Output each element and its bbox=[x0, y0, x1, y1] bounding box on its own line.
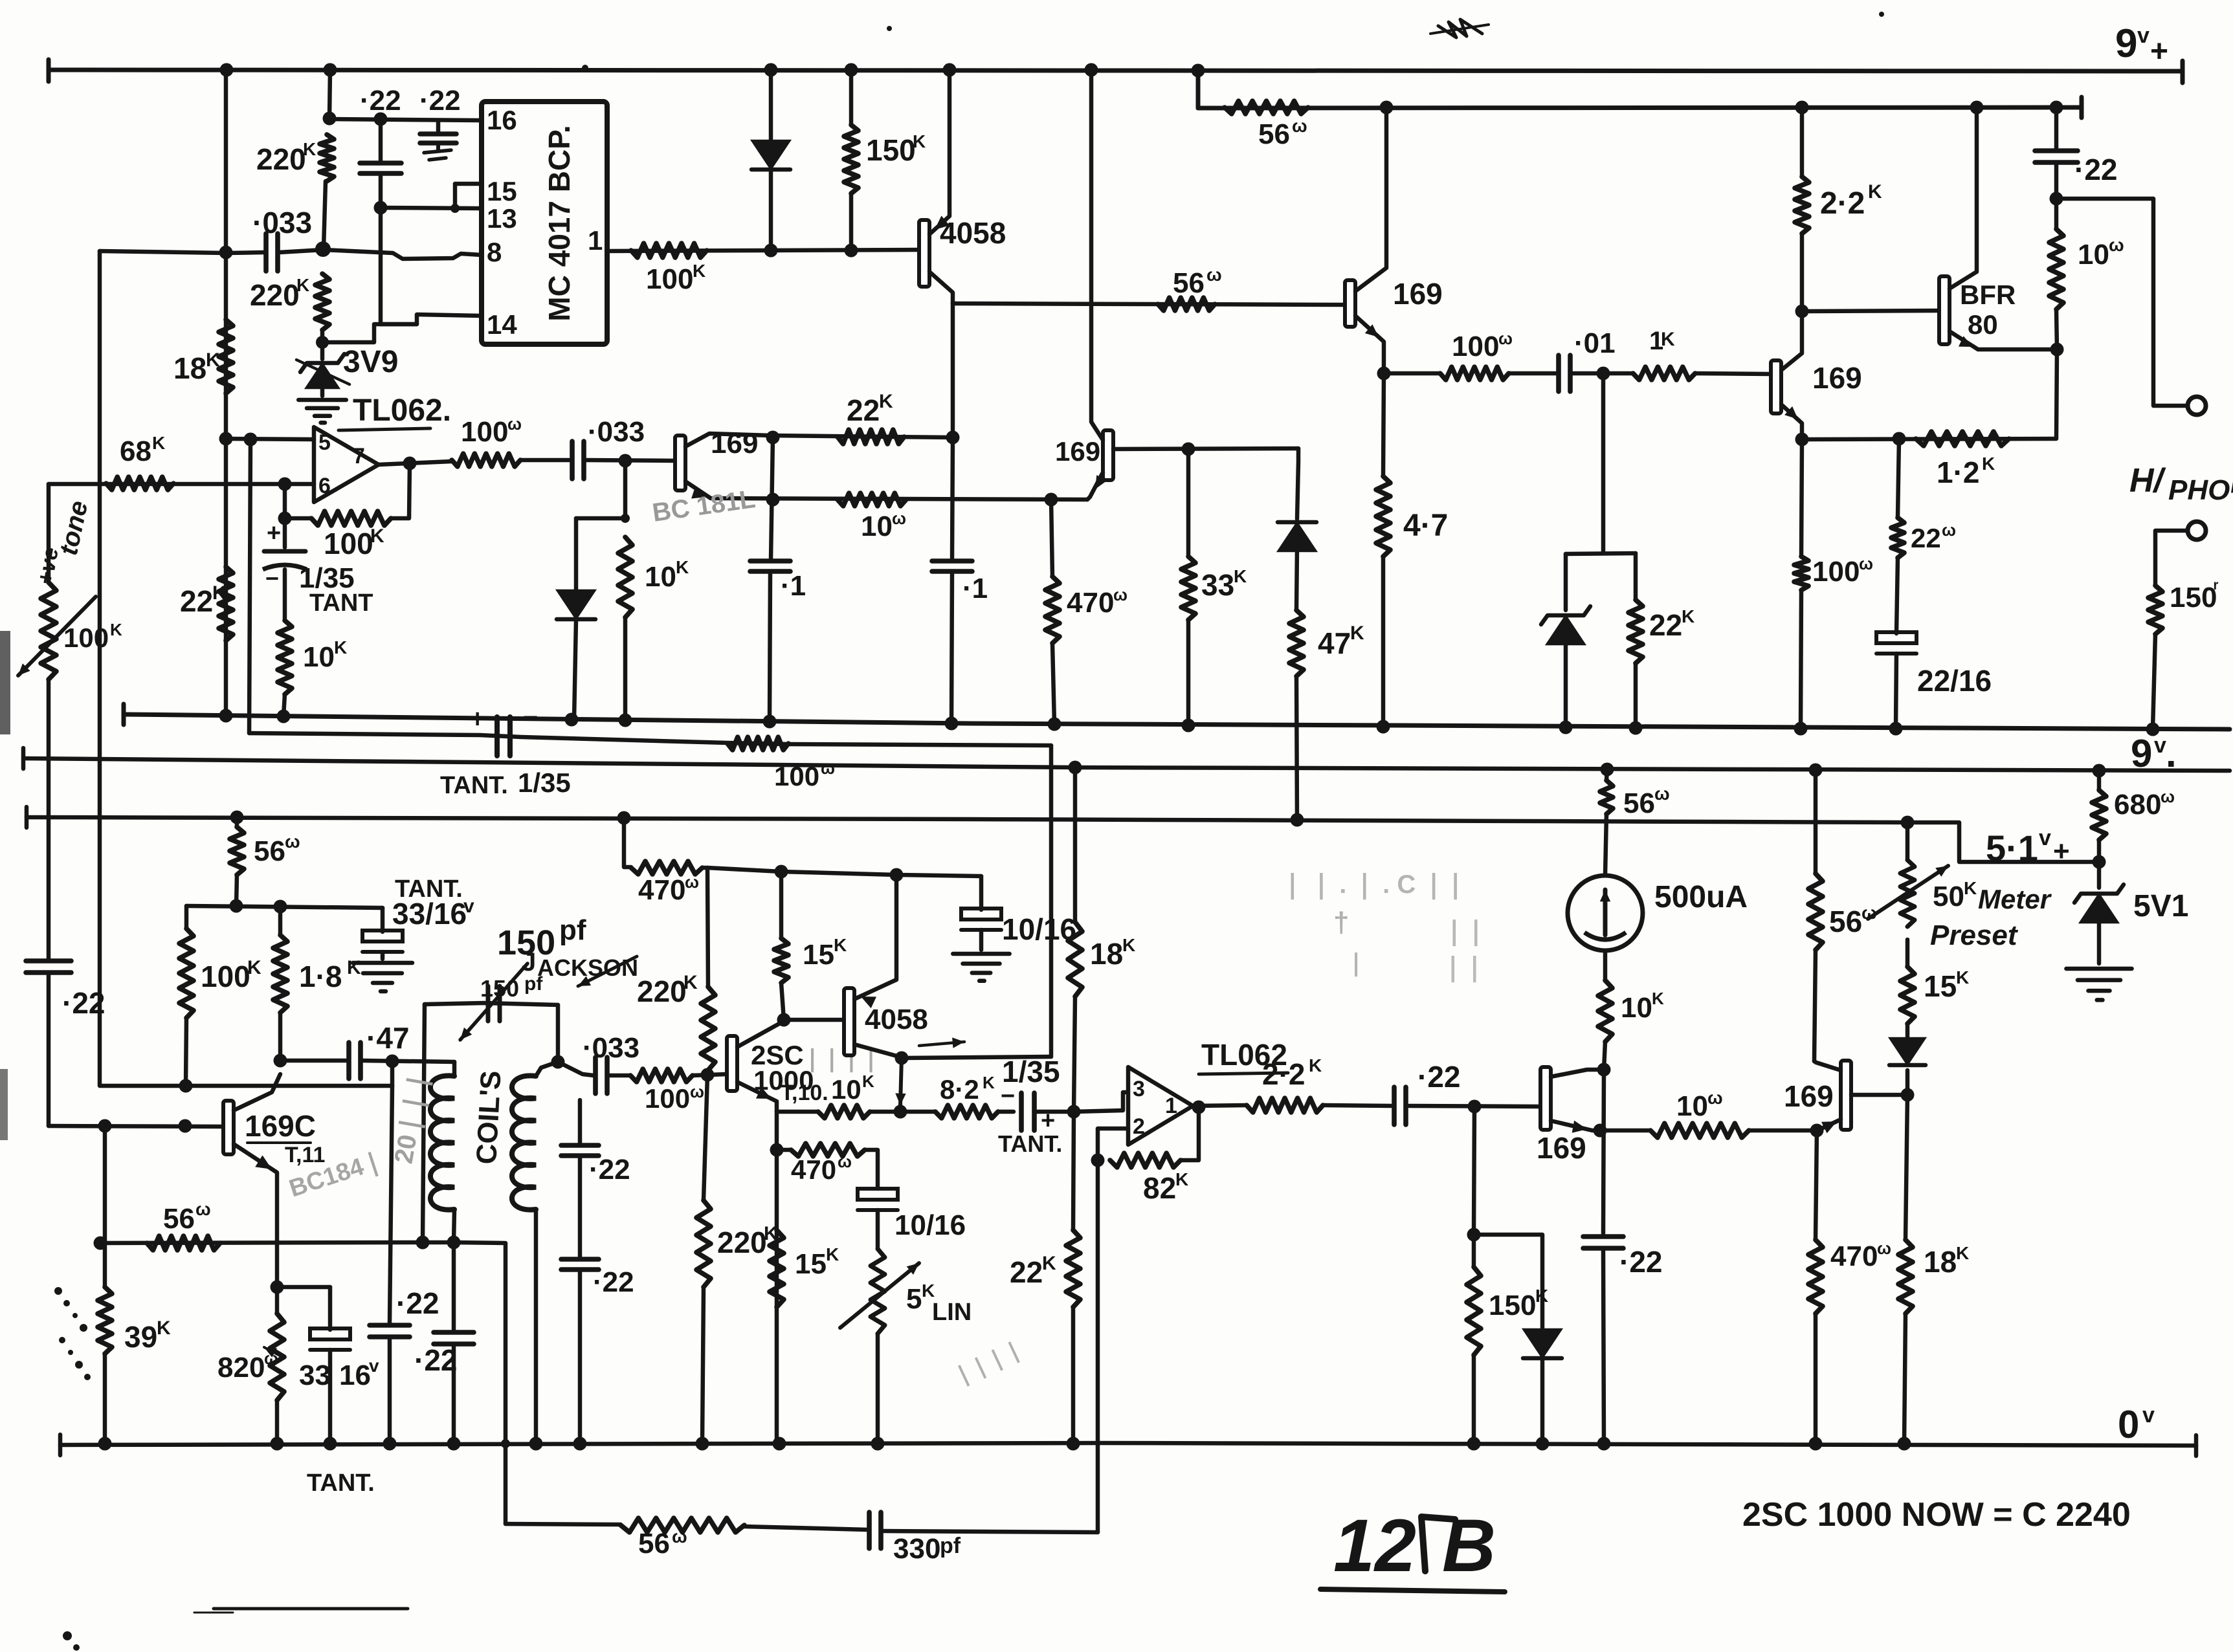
label TL062 b bbox=[1199, 1038, 1288, 1074]
junction on L1 rail bbox=[219, 709, 233, 723]
wire Q9 vert bbox=[1603, 1070, 1604, 1233]
svg-text:v: v bbox=[463, 896, 474, 917]
label 169 Q5 bbox=[1055, 436, 1100, 467]
junction on 0V rail bbox=[773, 1437, 786, 1451]
svg-text:v: v bbox=[2154, 733, 2166, 758]
wire collector to 4058b bbox=[784, 1018, 844, 1022]
resistor R-220Kb bbox=[696, 1075, 711, 1444]
pin 16 bbox=[487, 105, 517, 135]
wire .01 to 1K bbox=[1572, 371, 1633, 376]
junction on 0V rail bbox=[573, 1437, 587, 1451]
label 100c bbox=[1812, 554, 1873, 588]
wire .033 line bbox=[100, 251, 265, 253]
wire 56g to 330pf bbox=[744, 1526, 867, 1530]
label .1a bbox=[781, 570, 806, 602]
resistor R-33K bbox=[1181, 449, 1195, 725]
junction 100K base bbox=[179, 1119, 192, 1133]
capacitor C-1/35b tant bbox=[1001, 1083, 1055, 1134]
svg-text:169: 169 bbox=[711, 428, 758, 459]
svg-text:100: 100 bbox=[324, 527, 373, 560]
wire pin14 route bbox=[322, 314, 482, 342]
capacitor C-10/16a bbox=[961, 876, 1001, 950]
Q4 emitter bbox=[1950, 331, 2057, 349]
junction Q7 collector node bbox=[777, 1013, 791, 1027]
svg-text:10/16: 10/16 bbox=[894, 1209, 966, 1241]
resistor R-56b bbox=[1158, 298, 1215, 311]
Q0 emitter bbox=[685, 481, 1087, 500]
label .22 left bbox=[62, 986, 105, 1020]
Q5 emitter bbox=[1087, 472, 1107, 500]
label 1K bbox=[1649, 327, 1675, 355]
wire Q3 emitter row bbox=[1802, 439, 2056, 439]
svg-text:5V1: 5V1 bbox=[2133, 889, 2188, 923]
label 22Kc bbox=[847, 391, 893, 427]
svg-text:·22: ·22 bbox=[1619, 1245, 1662, 1279]
capacitor C-1/35 tant U1A bbox=[263, 518, 307, 621]
junction sub-rail/BFR80 collector bbox=[1970, 101, 1984, 115]
pin 6 bbox=[318, 474, 331, 498]
svg-text:MC 4017 BCP.: MC 4017 BCP. bbox=[542, 125, 576, 321]
Q6 collector bbox=[234, 1074, 280, 1110]
svg-text:169: 169 bbox=[1393, 277, 1443, 311]
svg-text:K: K bbox=[693, 261, 705, 281]
wire 100 to base bbox=[693, 1074, 727, 1075]
label 150ohm bbox=[2170, 577, 2219, 613]
potentiometer VR-50K preset bbox=[1868, 822, 1948, 927]
capacitor C-33/16 tant bbox=[362, 908, 403, 959]
wire L2 tant line bbox=[249, 733, 1051, 745]
wire .033 to 220K node bbox=[279, 250, 323, 252]
resistor R-56e bbox=[1600, 769, 1613, 876]
svg-text:4058: 4058 bbox=[940, 216, 1006, 250]
svg-text:J: J bbox=[522, 948, 536, 976]
wire tap tee bbox=[1566, 553, 1636, 554]
svg-text:1: 1 bbox=[588, 225, 603, 256]
svg-text:·22: ·22 bbox=[1417, 1060, 1460, 1094]
label 10a bbox=[2078, 235, 2124, 270]
label BC184 ghost bbox=[286, 1147, 387, 1203]
Q4 collector bbox=[1950, 108, 1977, 289]
junction L3/56 meter chain bbox=[1601, 763, 1614, 776]
svg-text:330: 330 bbox=[893, 1533, 940, 1565]
junction pin6/feedback bbox=[278, 478, 292, 491]
svg-text:33/16: 33/16 bbox=[392, 897, 467, 931]
junction on L1 rail bbox=[945, 717, 959, 731]
svg-text:15: 15 bbox=[1924, 969, 1957, 1003]
svg-text:2·2: 2·2 bbox=[1820, 186, 1865, 221]
label 3V9 bbox=[343, 345, 398, 379]
svg-text:PHOʳ: PHOʳ bbox=[2168, 474, 2233, 506]
wire 330pf to riser bbox=[883, 1531, 1098, 1532]
junction V1/pin5 wire bbox=[219, 432, 233, 446]
label 820 bbox=[217, 1347, 283, 1383]
svg-text:820: 820 bbox=[217, 1352, 265, 1383]
artifact margin smudge 2 bbox=[0, 1069, 8, 1140]
wire branch from 9V+ rail down to 56ohm sub-rail bbox=[1196, 71, 1201, 108]
junction row/15K bbox=[775, 865, 788, 879]
junction link/.22a bbox=[374, 113, 388, 126]
wire pin1 out bbox=[607, 250, 919, 251]
junction on L1 rail bbox=[565, 713, 579, 727]
svg-text:22: 22 bbox=[1911, 523, 1941, 553]
diode D2 and 47K chain bbox=[1278, 448, 1316, 820]
wire feedback drop bbox=[391, 463, 410, 518]
label .22a bbox=[360, 85, 401, 116]
capacitor C-.22e bbox=[370, 1086, 410, 1444]
wire tap down bbox=[1601, 373, 1606, 553]
svg-text:100: 100 bbox=[63, 622, 109, 653]
label 220K lower bbox=[250, 275, 309, 312]
resistor R-4.7 bbox=[1376, 373, 1390, 727]
svg-text:+: + bbox=[470, 705, 485, 733]
svg-text:169: 169 bbox=[1812, 361, 1862, 395]
label TANT b bbox=[307, 1470, 375, 1497]
svg-text:K: K bbox=[683, 972, 698, 993]
svg-text:ω: ω bbox=[195, 1199, 211, 1219]
inductor L1 coil left bbox=[430, 1062, 454, 1242]
label 100K tone bbox=[63, 620, 122, 653]
svg-text:56: 56 bbox=[1623, 787, 1655, 819]
Q7 emitter bbox=[737, 1082, 777, 1112]
transistor Q9 169 bar bbox=[1540, 1067, 1551, 1130]
label 22/16 bbox=[1917, 664, 1992, 698]
label 47K bbox=[1318, 622, 1364, 660]
svg-text:150: 150 bbox=[1489, 1290, 1536, 1321]
diode D5 bbox=[1889, 1024, 1926, 1095]
wire node to pin8 bbox=[323, 250, 482, 259]
junction jackson right bbox=[551, 1055, 565, 1069]
ground below 5V1 bbox=[2066, 969, 2131, 1000]
svg-text:B: B bbox=[1442, 1504, 1496, 1587]
junction 150K node bbox=[1467, 1228, 1481, 1242]
svg-text:TANT.: TANT. bbox=[307, 1470, 375, 1497]
wire 0V rail bbox=[60, 1435, 2196, 1456]
Q2 collector bbox=[1355, 108, 1386, 291]
wire emitter to L2 bbox=[902, 1057, 1051, 1058]
svg-text:LIN: LIN bbox=[932, 1299, 972, 1326]
wire osc top row bbox=[186, 906, 383, 908]
svg-text:v: v bbox=[2137, 23, 2150, 48]
svg-text:v: v bbox=[2142, 1403, 2155, 1427]
svg-text:56: 56 bbox=[254, 835, 285, 867]
junction L4 end to 5.1V jog bbox=[1901, 816, 1915, 830]
arrow jackson bbox=[578, 956, 637, 986]
wire V1 vertical 18K/22K chain bbox=[224, 70, 228, 716]
svg-text:Meter: Meter bbox=[1978, 884, 2052, 914]
junction on 0V rail bbox=[1898, 1437, 1911, 1451]
wire .22h to Q9 bbox=[1409, 1106, 1540, 1107]
label 100Kb bbox=[201, 957, 261, 993]
svg-text:16: 16 bbox=[339, 1360, 371, 1391]
svg-text:ω: ω bbox=[892, 509, 906, 528]
svg-text:·47: ·47 bbox=[366, 1021, 409, 1055]
junction V0/100K bbox=[179, 1079, 193, 1093]
svg-text:100: 100 bbox=[1812, 556, 1860, 588]
wire O2 to 150 bbox=[2155, 531, 2188, 586]
svg-text:TANT.: TANT. bbox=[998, 1130, 1062, 1157]
junction on 0V rail bbox=[324, 1437, 337, 1451]
resistor R-10K u1a bbox=[278, 621, 292, 716]
svg-text:K: K bbox=[1956, 1243, 1969, 1263]
label 10/16a bbox=[1002, 912, 1076, 946]
svg-text:K: K bbox=[676, 557, 689, 577]
resistor R-15Kb bbox=[770, 1230, 784, 1307]
svg-text:10: 10 bbox=[303, 641, 335, 673]
label 5V1 bbox=[2133, 889, 2188, 923]
wire Q7 emitter drop bbox=[775, 1112, 779, 1444]
label 10K u1a bbox=[303, 637, 347, 673]
svg-text:10: 10 bbox=[1676, 1090, 1708, 1122]
wire 220K to .033 node bbox=[324, 181, 326, 248]
svg-text:K: K bbox=[303, 139, 316, 159]
svg-text:ʳ: ʳ bbox=[2214, 577, 2219, 599]
svg-text:100: 100 bbox=[201, 960, 250, 993]
junction 22c/right bbox=[946, 431, 960, 445]
capacitor C-.22i bbox=[1583, 1237, 1623, 1444]
junction top row/56 bbox=[230, 899, 243, 913]
junction emitter/820 node bbox=[271, 1281, 284, 1294]
label squid ghost bbox=[950, 1336, 1027, 1391]
wire left tone branch bbox=[47, 484, 51, 582]
svg-text:220: 220 bbox=[256, 142, 306, 176]
label .22d bbox=[414, 1343, 457, 1377]
junction output/feedback bbox=[403, 457, 417, 470]
diode Z3 5V1 bbox=[2074, 862, 2124, 964]
capacitor C-.22g pair lower bbox=[561, 1259, 599, 1444]
wire bias drop bbox=[576, 461, 625, 518]
label 330pf bbox=[893, 1533, 961, 1565]
resistor R-22Kb bbox=[1628, 553, 1643, 728]
junction row/4058 bbox=[890, 868, 904, 882]
wire 9V+ top supply rail bbox=[49, 60, 2183, 83]
junction main rail dots bbox=[220, 63, 1205, 78]
label .22c bbox=[2074, 153, 2117, 186]
svg-text:1: 1 bbox=[1165, 1094, 1177, 1118]
Q3 emitter bbox=[1781, 404, 1802, 439]
junction pin13 tie bbox=[450, 204, 460, 213]
svg-text:3: 3 bbox=[1133, 1077, 1145, 1101]
resistor R-680 bbox=[2092, 771, 2106, 862]
artifact rail dots bbox=[582, 12, 1884, 71]
wire tant to pin3 bbox=[1034, 1110, 1074, 1114]
label 10Kd bbox=[1621, 989, 1664, 1024]
svg-text:ω: ω bbox=[1292, 116, 1307, 136]
label 500uA bbox=[1654, 880, 1748, 914]
resistor R-22K first opamp bbox=[219, 567, 233, 641]
svg-text:3V9: 3V9 bbox=[343, 345, 398, 379]
label .1b bbox=[962, 573, 988, 604]
svg-text:ω: ω bbox=[1498, 329, 1513, 348]
junction 680/5.1 jog bbox=[2093, 855, 2106, 869]
svg-text:K: K bbox=[983, 1073, 995, 1092]
svg-text:·22: ·22 bbox=[360, 85, 401, 116]
svg-text:BFR: BFR bbox=[1960, 280, 2016, 310]
resistor R-100K fb bbox=[311, 511, 391, 525]
transistor Q2 169 bar bbox=[1345, 280, 1355, 327]
svg-text:10: 10 bbox=[861, 511, 893, 542]
svg-text:TANT: TANT bbox=[309, 589, 373, 617]
wire U1B output bbox=[1193, 1105, 1247, 1106]
junction on 0V rail bbox=[447, 1437, 461, 1451]
junction VA top node bbox=[323, 112, 337, 126]
capacitor C-.1a bbox=[750, 437, 790, 721]
svg-text:+: + bbox=[2150, 34, 2168, 69]
junction on 0V rail bbox=[1467, 1437, 1481, 1451]
svg-text:39: 39 bbox=[124, 1320, 157, 1354]
label 4058 Q8 bbox=[865, 1004, 928, 1035]
junction L4/47K line bbox=[1291, 813, 1304, 827]
svg-text:ω: ω bbox=[1859, 554, 1873, 573]
svg-text:pf: pf bbox=[524, 973, 543, 995]
wire 470 row bbox=[624, 818, 631, 867]
svg-text:ω: ω bbox=[1206, 265, 1222, 285]
resistor R-100Kb bbox=[179, 906, 194, 1086]
label 82K bbox=[1143, 1169, 1188, 1205]
junction on L1 rail bbox=[1559, 721, 1573, 734]
label 2.2K bbox=[1820, 181, 1882, 221]
svg-text:470: 470 bbox=[1830, 1240, 1878, 1272]
label 1/35 TANT bbox=[299, 562, 373, 617]
svg-text:22: 22 bbox=[180, 584, 213, 618]
wire to tant bbox=[998, 1110, 1014, 1114]
resistor R-2.2K bbox=[1795, 108, 1809, 311]
junction base/220K bbox=[701, 1068, 715, 1082]
svg-text:K: K bbox=[247, 957, 261, 978]
svg-text:ACKSON: ACKSON bbox=[537, 954, 638, 981]
resistor R-470d bbox=[777, 1143, 878, 1189]
label BC181L ghost bbox=[650, 485, 757, 527]
junction on 0V rail bbox=[1597, 1437, 1611, 1451]
label .22g bbox=[593, 1266, 634, 1298]
Q10 collector bbox=[1814, 1061, 1841, 1070]
Q1 emitter bbox=[929, 272, 953, 303]
wire 820 tee bbox=[277, 1285, 330, 1290]
svg-text:K: K bbox=[913, 131, 926, 151]
svg-text:2: 2 bbox=[1133, 1114, 1145, 1139]
svg-text:K: K bbox=[1350, 622, 1364, 644]
node 9V+ label bbox=[2115, 21, 2168, 69]
ghost pencil marks center bbox=[1282, 870, 1487, 983]
meter M1 500uA bbox=[1568, 876, 1643, 951]
junction L3/56 output chain bbox=[1809, 764, 1823, 777]
wire Q5 base row bbox=[1113, 448, 1298, 449]
junction Q10 emitter bbox=[1810, 1124, 1824, 1138]
junction .47 node bbox=[386, 1055, 399, 1068]
transistor Q4 BFR80 bar bbox=[1939, 276, 1950, 344]
diode D3 bbox=[557, 518, 595, 720]
label 100K fb bbox=[324, 525, 384, 560]
svg-text:220: 220 bbox=[637, 975, 687, 1008]
svg-text:K: K bbox=[1956, 967, 1969, 987]
Q3 collector bbox=[1781, 311, 1802, 370]
junction L4/470 bbox=[617, 811, 631, 825]
junction on L1 rail bbox=[1794, 722, 1808, 736]
svg-text:10: 10 bbox=[831, 1074, 861, 1105]
svg-text:1/35: 1/35 bbox=[1002, 1055, 1060, 1088]
svg-text:7: 7 bbox=[353, 444, 365, 468]
svg-text:K: K bbox=[157, 1317, 171, 1339]
svg-text:K: K bbox=[1234, 566, 1247, 586]
svg-text:1·2: 1·2 bbox=[1937, 456, 1979, 489]
svg-text:5: 5 bbox=[318, 430, 331, 455]
terminal O2 headphone bbox=[2188, 522, 2206, 540]
svg-text:680: 680 bbox=[2114, 789, 2161, 820]
junction on 0V rail bbox=[98, 1437, 112, 1451]
junction 10c/.1a bbox=[766, 493, 780, 507]
svg-text:100: 100 bbox=[645, 1083, 690, 1114]
wire to .033b bbox=[520, 458, 570, 463]
junction 56row/39K bbox=[94, 1237, 107, 1250]
junction on 0V rail bbox=[1809, 1437, 1823, 1451]
label 2.2Kb bbox=[1262, 1055, 1322, 1091]
wire Q9 emitter junction bbox=[1594, 1124, 1607, 1138]
label blah ghost bbox=[803, 1045, 881, 1073]
svg-text:·1: ·1 bbox=[962, 573, 988, 604]
pin 1 bbox=[588, 225, 603, 256]
label TANTc bbox=[998, 1130, 1062, 1157]
svg-text:·22: ·22 bbox=[589, 1154, 630, 1185]
wire L2 corner down to oscillator bbox=[1049, 745, 1054, 1057]
label 5.1v+ bbox=[1986, 826, 2070, 868]
pin 13 bbox=[487, 203, 517, 234]
junction VB pins15/13 node bbox=[374, 201, 388, 215]
resistor R-1K bbox=[1633, 367, 1695, 380]
Q6 emitter bbox=[234, 1144, 277, 1287]
Q5 collector bbox=[1091, 70, 1103, 440]
label 39K bbox=[124, 1317, 171, 1354]
label 68K bbox=[120, 433, 165, 467]
svg-text:10: 10 bbox=[1621, 992, 1652, 1024]
svg-text:56: 56 bbox=[1173, 267, 1205, 299]
svg-text:†: † bbox=[1333, 907, 1349, 938]
label 169C bbox=[245, 1109, 316, 1143]
wire .47 to coil node bbox=[362, 1061, 454, 1062]
svg-text:10: 10 bbox=[2078, 239, 2109, 270]
junction on 0V rail bbox=[1536, 1437, 1550, 1451]
label .033b bbox=[588, 416, 645, 448]
junction output/82K bbox=[1192, 1101, 1206, 1114]
svg-text:+: + bbox=[2053, 835, 2070, 867]
svg-text:15: 15 bbox=[487, 176, 517, 206]
svg-text:K: K bbox=[826, 1244, 839, 1264]
label TL062. bbox=[339, 393, 451, 430]
ground under 10/16a bbox=[953, 954, 1009, 981]
svg-text:K: K bbox=[1982, 454, 1995, 474]
resistor R-100c 100ohm vert bbox=[1794, 439, 1808, 729]
resistor R-220K upper bbox=[320, 135, 334, 181]
svg-text:·22: ·22 bbox=[414, 1343, 457, 1377]
junction BFR emitter/10ohm bbox=[2050, 343, 2064, 357]
capacitor C-.033c bbox=[595, 1057, 607, 1094]
label 100e bbox=[645, 1082, 704, 1114]
label 22ohm bbox=[1911, 520, 1956, 553]
label 0V bbox=[2118, 1403, 2155, 1446]
svg-text:TANT.: TANT. bbox=[440, 772, 508, 799]
svg-text:·033: ·033 bbox=[252, 206, 312, 239]
junction Q3 collector/2.2K/BFR base bbox=[1795, 305, 1809, 318]
svg-text:ω: ω bbox=[838, 1152, 852, 1171]
svg-text:K: K bbox=[1122, 935, 1135, 955]
svg-text:0: 0 bbox=[2118, 1403, 2139, 1446]
label .47 bbox=[366, 1021, 409, 1055]
label 15Kb bbox=[795, 1244, 839, 1280]
svg-text:33: 33 bbox=[299, 1360, 331, 1391]
svg-text:22: 22 bbox=[1649, 608, 1682, 642]
svg-text:K: K bbox=[862, 1072, 874, 1091]
capacitor C-.22f pair upper bbox=[561, 1100, 599, 1257]
wire pin5 input bbox=[226, 439, 314, 439]
label tone bbox=[54, 498, 94, 558]
